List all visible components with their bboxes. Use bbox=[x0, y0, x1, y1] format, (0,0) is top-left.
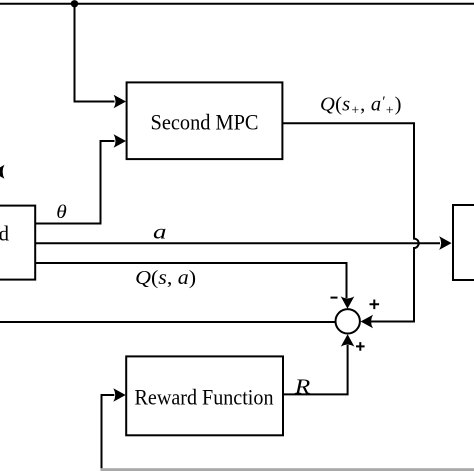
svg-text:θ: θ bbox=[56, 202, 67, 223]
arrowhead into Reward Function bbox=[113, 388, 125, 402]
svg-text:Q(s, a): Q(s, a) bbox=[135, 267, 196, 289]
wire Second MPC output with hop over a-line bbox=[282, 123, 418, 321]
svg-text:Reward Function: Reward Function bbox=[135, 384, 274, 409]
wire from left edge into summing junction bbox=[0, 321, 336, 323]
block right (cropped) bbox=[453, 205, 474, 280]
letter fragment at left edge bbox=[0, 233, 1, 239]
block Reward Function bbox=[126, 356, 283, 435]
label minus at summing junction bbox=[331, 297, 338, 299]
wire from junction down and right into Second MPC bbox=[75, 4, 115, 102]
arrowhead into summing junction top bbox=[341, 296, 355, 308]
node junction dot bbox=[71, 0, 78, 7]
arrowhead into right box bbox=[439, 236, 451, 250]
arrowhead into Second MPC pin 2 bbox=[114, 134, 126, 148]
label plus right of summing junction bbox=[370, 300, 380, 310]
wire reward input from bottom line up into Reward Function bbox=[102, 395, 115, 470]
arrowhead into Second MPC pin 1 bbox=[114, 95, 126, 109]
wire bottom gray (cropped) bbox=[101, 468, 474, 471]
svg-text:a: a bbox=[153, 219, 167, 243]
arrowhead wedge at left edge bbox=[0, 165, 4, 179]
svg-text:Second MPC: Second MPC bbox=[151, 109, 259, 134]
summing junction bbox=[336, 309, 360, 333]
block Second MPC bbox=[127, 82, 283, 159]
label plus below summing junction bbox=[356, 342, 365, 351]
arrowhead into summing junction bottom bbox=[341, 334, 355, 346]
svg-text:R: R bbox=[294, 375, 311, 399]
svg-text:d: d bbox=[0, 221, 10, 245]
wire R from Reward Function up into summing junction bottom bbox=[283, 345, 348, 394]
arrowhead into summing junction right bbox=[361, 315, 373, 329]
wire a from left box to right box bbox=[35, 242, 440, 244]
block left (cropped) bbox=[0, 206, 35, 280]
wire theta from left box up into Second MPC bbox=[35, 141, 115, 224]
wire top horizontal bbox=[0, 3, 474, 5]
wire Q(s,a) from left box down into summing junction top bbox=[35, 263, 347, 298]
svg-text:Q(s+, a′+): Q(s+, a′+) bbox=[320, 94, 402, 119]
